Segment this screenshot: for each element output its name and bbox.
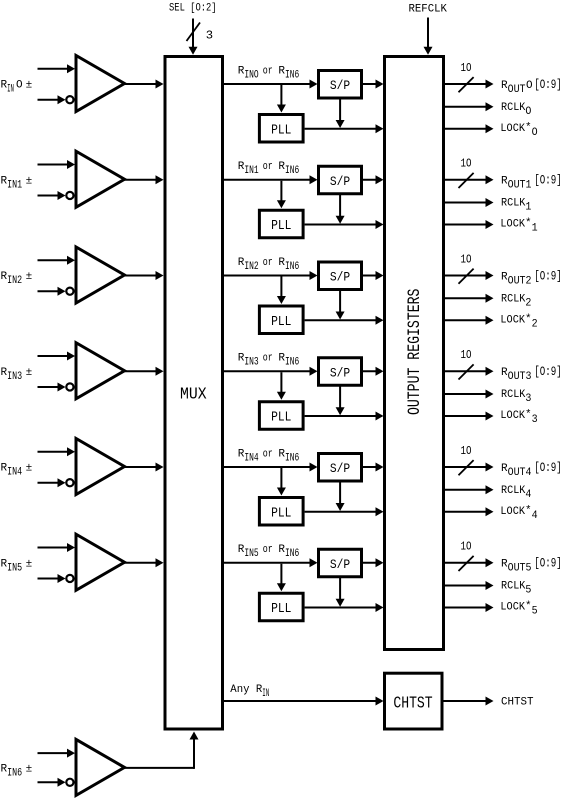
wire branch down to PLL 4 xyxy=(277,468,286,496)
wire A1 output to MUX xyxy=(125,175,164,184)
bus slash 10 on ROUT2 xyxy=(459,269,474,284)
inversion bubble on A6 xyxy=(66,779,73,786)
wire inverting input of A0 xyxy=(38,95,74,104)
wire S/P 0 down to recovered clock line xyxy=(336,99,345,128)
wire S/P 4 down to recovered clock line xyxy=(336,482,345,511)
block S/P 1 xyxy=(319,166,362,194)
svg-text:1O: 1O xyxy=(461,157,472,171)
wire ROUT5 output xyxy=(445,558,494,567)
wire noninverting input of A1 xyxy=(38,160,76,169)
wire ROUT1 output xyxy=(445,175,494,184)
wire branch down to PLL 5 xyxy=(277,564,286,592)
wire LOCK*1 output xyxy=(445,220,494,229)
wire LOCK*3 output xyxy=(445,412,494,421)
svg-text:MUX: MUX xyxy=(180,385,207,404)
wire LOCK*5 output xyxy=(445,603,494,612)
wire ROUT0 output xyxy=(445,80,494,89)
svg-text:OUTPUT REGISTERS: OUTPUT REGISTERS xyxy=(406,289,425,416)
wire PLL 1 to OUTPUT REGISTERS xyxy=(305,220,384,229)
wire branch down to PLL 1 xyxy=(277,181,286,209)
wire noninverting input of A6 xyxy=(38,749,76,758)
wire CHTST output xyxy=(444,697,494,706)
block PLL 2 xyxy=(259,306,303,334)
wire noninverting input of A5 xyxy=(38,543,76,552)
wire S/P 4 to OUTPUT REGISTERS xyxy=(363,463,384,472)
svg-text:S/P: S/P xyxy=(330,270,350,285)
wire A2 output to MUX xyxy=(125,271,164,280)
block S/P 3 xyxy=(319,358,362,386)
wire LOCK*4 output xyxy=(445,507,494,516)
svg-text:S/P: S/P xyxy=(330,461,350,476)
arrowhead REFCLK into OUTPUT REGISTERS xyxy=(424,47,433,55)
bus slash 10 on ROUT1 xyxy=(459,173,474,188)
wire LOCK*2 output xyxy=(445,316,494,325)
wire PLL 4 to OUTPUT REGISTERS xyxy=(305,507,384,516)
wire S/P 2 to OUTPUT REGISTERS xyxy=(363,271,384,280)
wire RCLK3 output xyxy=(445,390,494,399)
input buffer amplifier A5 xyxy=(76,534,125,590)
wire MUX to S/P channel 2 xyxy=(223,271,318,280)
svg-text:CHTST: CHTST xyxy=(393,694,432,713)
wire RCLK1 output xyxy=(445,198,494,207)
svg-text:1O: 1O xyxy=(461,444,472,458)
input buffer amplifier A0 xyxy=(76,56,125,112)
wire inverting input of A2 xyxy=(38,287,74,296)
svg-text:1O: 1O xyxy=(461,540,472,554)
svg-text:S/P: S/P xyxy=(330,365,350,380)
inversion bubble on A4 xyxy=(66,479,73,486)
block PLL 1 xyxy=(259,210,303,238)
wire S/P 3 to OUTPUT REGISTERS xyxy=(363,367,384,376)
wire A4 output to MUX xyxy=(125,463,164,472)
wire RCLK4 output xyxy=(445,485,494,494)
block S/P 4 xyxy=(319,454,362,482)
block MUX xyxy=(165,57,223,730)
svg-text:PLL: PLL xyxy=(271,410,291,426)
inversion bubble on A2 xyxy=(66,288,73,295)
wire inverting input of A6 xyxy=(38,778,74,787)
wire MUX to S/P channel 5 xyxy=(223,558,318,567)
wire inverting input of A3 xyxy=(38,382,74,391)
block S/P 2 xyxy=(319,262,362,290)
wire branch down to PLL 0 xyxy=(277,85,286,113)
wire noninverting input of A2 xyxy=(38,256,76,265)
wire ROUT3 output xyxy=(445,367,494,376)
svg-text:1O: 1O xyxy=(461,348,472,362)
wire PLL 5 to OUTPUT REGISTERS xyxy=(305,603,384,612)
wire RCLK0 output xyxy=(445,102,494,111)
wire S/P 2 down to recovered clock line xyxy=(336,291,345,320)
wire inverting input of A5 xyxy=(38,574,74,583)
wire MUX to S/P channel 0 xyxy=(223,80,318,89)
svg-text:PLL: PLL xyxy=(271,314,291,330)
wire S/P 0 to OUTPUT REGISTERS xyxy=(363,80,384,89)
wire S/P 1 down to recovered clock line xyxy=(336,195,345,224)
bus slash 10 on ROUT0 xyxy=(459,77,474,92)
block PLL 0 xyxy=(259,115,303,143)
svg-text:PLL: PLL xyxy=(271,601,291,617)
wire ROUT2 output xyxy=(445,271,494,280)
wire RCLK5 output xyxy=(445,581,494,590)
wire inverting input of A4 xyxy=(38,478,74,487)
svg-text:PLL: PLL xyxy=(271,505,291,521)
wire S/P 5 down to recovered clock line xyxy=(336,578,345,607)
svg-text:3: 3 xyxy=(206,29,213,43)
wire S/P 5 to OUTPUT REGISTERS xyxy=(363,558,384,567)
svg-text:REFCLK: REFCLK xyxy=(409,3,448,15)
input buffer amplifier A1 xyxy=(76,151,125,207)
wire PLL 3 to OUTPUT REGISTERS xyxy=(305,411,384,420)
wire LOCK*0 output xyxy=(445,124,494,133)
wire inverting input of A1 xyxy=(38,191,74,200)
input buffer amplifier A4 xyxy=(76,439,125,495)
svg-text:SEL [O:2]: SEL [O:2] xyxy=(169,2,217,14)
wire MUX to S/P channel 3 xyxy=(223,367,318,376)
wire A0 output to MUX xyxy=(125,80,164,89)
wire A5 output to MUX xyxy=(125,558,164,567)
block S/P 5 xyxy=(319,549,362,577)
wire A6 output to MUX bottom xyxy=(125,732,199,769)
wire MUX to CHTST xyxy=(223,697,384,706)
svg-text:S/P: S/P xyxy=(330,174,350,189)
svg-text:S/P: S/P xyxy=(330,557,350,572)
arrowhead SEL into MUX xyxy=(189,47,198,55)
wire branch down to PLL 3 xyxy=(277,372,286,400)
wire PLL 0 to OUTPUT REGISTERS xyxy=(305,124,384,133)
wire branch down to PLL 2 xyxy=(277,277,286,305)
bus slash 10 on ROUT5 xyxy=(459,556,474,571)
svg-text:1O: 1O xyxy=(461,252,472,266)
block PLL 5 xyxy=(259,593,303,621)
wire S/P 3 down to recovered clock line xyxy=(336,386,345,415)
input buffer amplifier A2 xyxy=(76,247,125,303)
input buffer amplifier A3 xyxy=(76,343,125,399)
wire PLL 2 to OUTPUT REGISTERS xyxy=(305,316,384,325)
wire A3 output to MUX xyxy=(125,367,164,376)
inversion bubble on A5 xyxy=(66,575,73,582)
wire MUX to S/P channel 1 xyxy=(223,175,318,184)
block S/P 0 xyxy=(319,71,362,99)
block PLL 3 xyxy=(259,402,303,430)
block OUTPUT REGISTERS xyxy=(385,57,444,650)
inversion bubble on A1 xyxy=(66,192,73,199)
svg-text:CHTST: CHTST xyxy=(501,697,534,709)
svg-text:1O: 1O xyxy=(461,61,472,75)
wire noninverting input of A4 xyxy=(38,447,76,456)
bus slash 10 on ROUT4 xyxy=(459,460,474,475)
inversion bubble on A0 xyxy=(66,96,73,103)
wire REFCLK to OUTPUT REGISTERS xyxy=(427,18,429,49)
block CHTST xyxy=(385,673,443,729)
svg-text:PLL: PLL xyxy=(271,218,291,234)
inversion bubble on A3 xyxy=(66,383,73,390)
wire ROUT4 output xyxy=(445,463,494,472)
wire noninverting input of A0 xyxy=(38,64,76,73)
input buffer amplifier A6 xyxy=(76,739,125,795)
bus slash 3 on SEL wire xyxy=(187,23,201,42)
wire RCLK2 output xyxy=(445,294,494,303)
bus slash 10 on ROUT3 xyxy=(459,364,474,379)
svg-text:S/P: S/P xyxy=(330,78,350,93)
wire SEL to MUX xyxy=(192,19,194,49)
wire noninverting input of A3 xyxy=(38,351,76,360)
wire MUX to S/P channel 4 xyxy=(223,463,318,472)
svg-text:PLL: PLL xyxy=(271,122,291,138)
wire S/P 1 to OUTPUT REGISTERS xyxy=(363,175,384,184)
block PLL 4 xyxy=(259,498,303,526)
